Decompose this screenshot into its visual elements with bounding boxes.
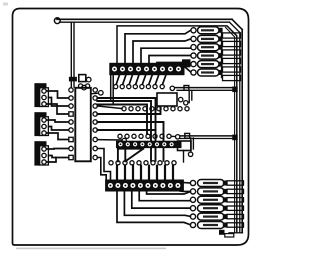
C3 pins [42,147,46,164]
C3 wire b [49,156,69,158]
wire Z1 [97,149,110,180]
J1 fanout wire f [149,75,153,85]
J1 fanout wire b [123,75,126,85]
terminal slot T6 [223,75,241,80]
connector strip J1 (black band) [110,63,184,74]
wire M2 [97,129,155,131]
panel bevel corner outer [230,19,243,32]
fuse F8 [190,188,243,195]
wire L2 [125,30,191,63]
W1 tap square [184,86,189,91]
panel inner boundary second line [226,27,235,232]
connector strip J2 (black band) [117,141,182,147]
fuse F2 [191,35,223,42]
fuse F1 [191,27,223,34]
panel right wall outer [240,30,242,233]
border frame [13,9,249,246]
junction ring b [82,85,87,90]
J1 end lug [182,59,191,67]
riser f [156,166,158,180]
C3 arm [35,141,47,145]
R2 pin ring [188,152,192,156]
junction stub wire [91,92,98,95]
strip1 left drop (double) [111,75,114,105]
C2 wire a [46,120,68,122]
J1 fanout wire d [136,75,139,85]
C3 wire c [46,158,56,163]
wire W1 (double) [175,88,233,91]
bottom end strip [225,234,234,237]
R2 bars [191,138,194,152]
J1 fanout wire h [163,75,167,85]
terminal slot T4 [223,58,241,63]
C1 pins [42,89,46,106]
ring terminal mid [122,138,126,142]
R1 pin b [184,101,188,105]
panel bottom hook [229,232,243,234]
pin row A [114,85,165,89]
riser b [124,166,126,180]
wire L6 [157,63,191,64]
wire M3 [97,139,121,141]
terminal slot T1 [223,33,241,38]
J2 band holes [118,142,173,146]
connector C2 bracket [35,113,40,136]
C3 slot [40,146,49,165]
J1 fanout wire e [142,75,146,85]
wire bar B3 [97,105,147,135]
J1 pin holes [112,67,181,72]
wire row B feed [97,106,122,109]
fan wire row2 [147,191,191,194]
terminal slot T2 [223,41,241,46]
J3 pin holes [108,183,180,188]
harness diagonal wire [127,149,144,161]
fuse F7 [190,180,243,187]
connector C1 bracket [35,84,40,107]
J4 right pins [93,88,97,160]
riser e [148,166,150,180]
J2 band hole dots [120,143,173,145]
panel top flange (double bar) [57,19,232,22]
junction ring c [99,91,104,96]
J1 pin dots [114,68,180,70]
wire row6 stub [185,67,191,72]
bottom end block [219,230,225,235]
C3 wire a [46,148,68,151]
pin row B [122,107,189,111]
harness top wire [118,148,143,150]
scan speck corner [3,3,8,6]
wire Z2 [97,158,106,180]
W2 tap square [185,133,190,138]
junction box small [79,75,86,82]
terminal slot T5 [223,67,241,72]
J4 top pins [79,84,90,88]
fan wire row5 [124,191,190,216]
connector C3 bracket [35,142,40,165]
wire M4 [97,122,163,161]
fuse F3 [191,44,223,51]
scan smudge bottom [16,248,166,250]
connector strip J3 (black band) [106,180,184,191]
harness left verticals [118,148,125,162]
fuse F12 [190,222,243,229]
fan wire row6 [117,191,190,225]
R1 bars [189,91,192,103]
wire L3 [133,39,191,63]
wire bar B2 [97,101,151,161]
C1 arm [35,83,47,87]
wire L5 [149,56,191,64]
C2 wire b [49,127,69,131]
fuse F11 [190,213,243,220]
wire W2 (double) [180,136,233,139]
fan wire row4 [132,191,191,208]
mounting hole [54,18,60,24]
C2 slot [40,117,49,136]
riser a [116,166,118,180]
J1 fanout wire a [116,75,119,85]
riser h [172,166,174,180]
pin row D [109,161,176,165]
riser d [140,166,142,180]
J4 left pins [69,88,73,160]
fuse F9 [190,196,243,203]
fuse F10 [190,205,243,212]
relay R2 body [178,141,192,151]
J1 fanout wire c [129,75,132,85]
C2 wire c [46,133,68,140]
R1 pin a [179,97,183,101]
riser c [132,166,134,180]
ring terminal W1 [170,86,174,90]
terminal slot T3 [223,50,241,55]
C1 wire c [46,104,68,114]
wire rowC to R2 [172,135,176,137]
W2 wall terminal [232,135,237,141]
wire bar B1 [97,98,155,161]
C2 pins [42,118,46,135]
fuse F4 [191,52,223,59]
C1 slot [40,88,49,107]
J3 pin dots [109,185,178,187]
wire M1 [97,107,160,115]
connector J4 body [75,88,91,162]
J1 fanout wire g [155,75,159,85]
fuse F5 [191,61,223,68]
bracket stem (double vertical) [71,22,74,87]
R2 drop [183,151,185,163]
relay R1 body [157,93,177,106]
C2 arm [35,112,47,116]
C1 wire a [46,91,68,98]
J3 stub row2 [180,190,190,192]
panel inner boundary [117,26,237,233]
W1 wall terminal [232,87,237,93]
junction ring a [86,77,91,82]
ring terminal W2 [176,135,180,139]
bracket stem clamp [69,77,77,82]
J3 stub row1 [183,182,190,185]
top fuse bus [221,30,223,78]
riser g [164,166,166,180]
C1 wire b [49,98,69,107]
fan wire row3 [139,191,190,201]
fuse F6 [191,69,223,76]
pin row C [118,134,171,138]
wire L4 [141,48,191,63]
